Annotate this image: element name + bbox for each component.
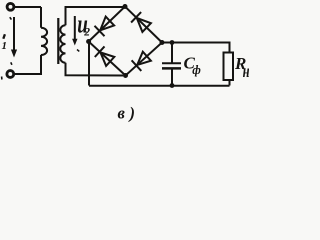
svg-text:н: н xyxy=(243,62,249,82)
svg-text:1: 1 xyxy=(2,40,8,52)
wire: top wire from input terminal to primary xyxy=(15,6,42,8)
junction dot capacitor top xyxy=(170,40,175,45)
svg-text:ф: ф xyxy=(192,62,201,77)
wire: primary bottom to terminal xyxy=(15,55,42,74)
ink speck near left corner xyxy=(77,50,79,52)
svg-text:2: 2 xyxy=(83,27,90,39)
bridge diamond sides xyxy=(89,7,162,76)
ink speck near top terminal xyxy=(10,17,12,19)
input terminal bottom xyxy=(7,71,14,78)
capacitor C leads xyxy=(171,43,173,86)
junction dot right corner xyxy=(160,40,165,45)
capacitor C plates xyxy=(162,62,181,64)
svg-text:): ) xyxy=(128,103,136,122)
junction dot bottom corner xyxy=(123,73,128,78)
junction dot capacitor bottom xyxy=(170,83,175,88)
transformer secondary winding xyxy=(60,25,65,63)
transformer core xyxy=(57,18,59,64)
diode VD2 top-right (cathode to top corner) xyxy=(131,12,141,22)
arrow u2 xyxy=(74,16,76,40)
resistor R_n body xyxy=(224,53,234,81)
diode VD3 bottom-left (cathode to left corner) xyxy=(95,46,105,57)
wire: right corner to load xyxy=(162,43,230,53)
transformer primary winding xyxy=(41,28,47,55)
svg-text:в: в xyxy=(118,103,126,122)
wire: bottom rail xyxy=(89,85,230,87)
wire: secondary top to bridge top corner xyxy=(66,7,126,25)
ink speck above bottom terminal xyxy=(11,62,12,65)
arrow u1 xyxy=(13,17,15,51)
junction dot top corner xyxy=(123,4,128,9)
ink speck at lower left edge xyxy=(1,77,3,80)
wire: resistor bottom to rail xyxy=(229,80,231,86)
diode VD1 top-left (cathode to left corner) xyxy=(95,26,105,36)
label u1 xyxy=(3,34,5,39)
wire: primary top drop xyxy=(40,7,42,28)
input terminal top xyxy=(7,3,14,10)
junction dot left corner xyxy=(86,39,91,44)
wire: left corner down to bottom rail xyxy=(88,42,90,86)
diode VD4 bottom-right (cathode to bottom corner) xyxy=(132,60,142,71)
wire: secondary bottom to bridge bottom corner xyxy=(66,63,124,76)
